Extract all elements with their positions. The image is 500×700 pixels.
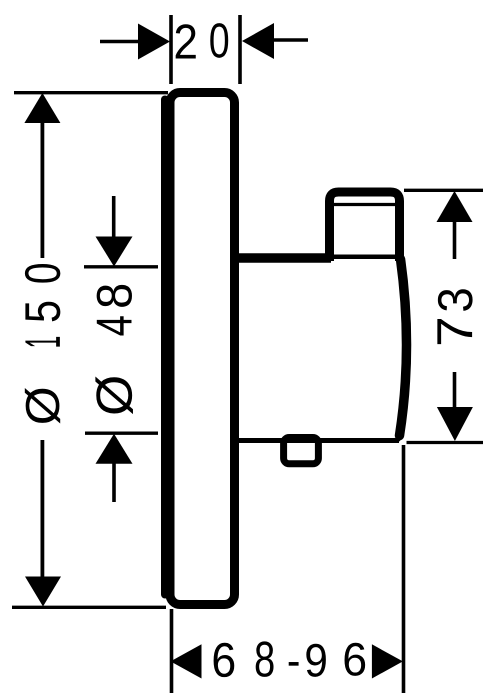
dimension 73: bottom tick line <box>407 441 484 444</box>
dimension 73: top tick line <box>404 189 483 192</box>
stop box inner line <box>333 203 396 206</box>
dimension 68-96: second digit 6 of value label <box>345 643 366 676</box>
dimension D150: digit 0 of value label <box>25 264 60 283</box>
escutcheon plate face line <box>161 100 169 595</box>
dimension 68-96: digit 6 of value label <box>214 643 235 677</box>
dimension 20: right arrowhead <box>242 23 274 59</box>
dimension 20: left arrowhead <box>138 24 170 60</box>
dimension D48: diameter symbol of value label <box>95 376 133 414</box>
dimension 68-96: left arrowhead <box>171 644 202 678</box>
dimension D150: bottom tick line <box>12 606 166 609</box>
dimension D150: top tick line <box>14 91 168 94</box>
dimension D48: top arrowhead <box>96 237 133 267</box>
supply notch <box>284 438 319 464</box>
stop box outline <box>330 192 400 261</box>
dimension 73: bottom arrowhead <box>437 407 473 441</box>
valve body: bottom-right corner <box>394 436 400 441</box>
dimension 73: top arrowhead <box>437 191 473 222</box>
dimension 68-96: right arrowhead <box>372 644 403 678</box>
dimension 68-96: right extension line <box>402 445 406 693</box>
dimension 20: right tail wire <box>273 38 308 42</box>
dimension D48: digit 8 of value label <box>97 285 132 307</box>
dimension D150: digit 5 of value label <box>25 302 60 322</box>
dimension D48: lower stem wire <box>112 463 116 502</box>
dimension D48: top tick line <box>84 265 158 268</box>
dimension 68-96: dash of value label <box>289 662 299 666</box>
dimension 68-96: left extension line <box>170 609 174 693</box>
dimension 73: lower stem wire <box>453 372 457 407</box>
dimension 20: left extension line <box>169 15 173 84</box>
escutcheon plate outline <box>170 93 235 605</box>
dimension 68-96: digit 8 of value label <box>256 641 274 676</box>
valve body: top edge <box>234 253 331 263</box>
dimension D150: lower stem wire <box>41 440 45 578</box>
dimension 73: digit 7 of value label <box>437 319 472 344</box>
stop box bottom line <box>331 255 400 260</box>
dimension D48: digit 4 of value label <box>97 316 132 335</box>
dimension D48: bottom arrowhead <box>96 434 133 464</box>
dimension D150: bottom arrowhead <box>25 577 61 607</box>
dimension D48: bottom tick line <box>85 432 158 435</box>
dimension 20: digit 0 of value label <box>210 23 228 58</box>
dimension 73: upper stem wire <box>453 221 457 259</box>
dimension D150: diameter symbol of value label <box>25 388 60 424</box>
valve body: bottom edge <box>238 438 399 443</box>
dimension 20: digit 2 of value label <box>176 24 196 58</box>
valve body: right edge arc <box>400 259 407 436</box>
dimension D48: upper stem wire <box>112 196 116 237</box>
dimension 20: left tail wire <box>100 40 140 44</box>
dimension D150: digit 1 of value label <box>25 337 59 347</box>
dimension 20: right extension line <box>238 15 242 84</box>
dimension 68-96: digit 9 of value label <box>306 644 326 677</box>
dimension D150: upper stem wire <box>41 122 45 258</box>
dimension 73: digit 3 of value label <box>438 289 473 311</box>
dimension D150: top arrowhead <box>24 93 60 123</box>
